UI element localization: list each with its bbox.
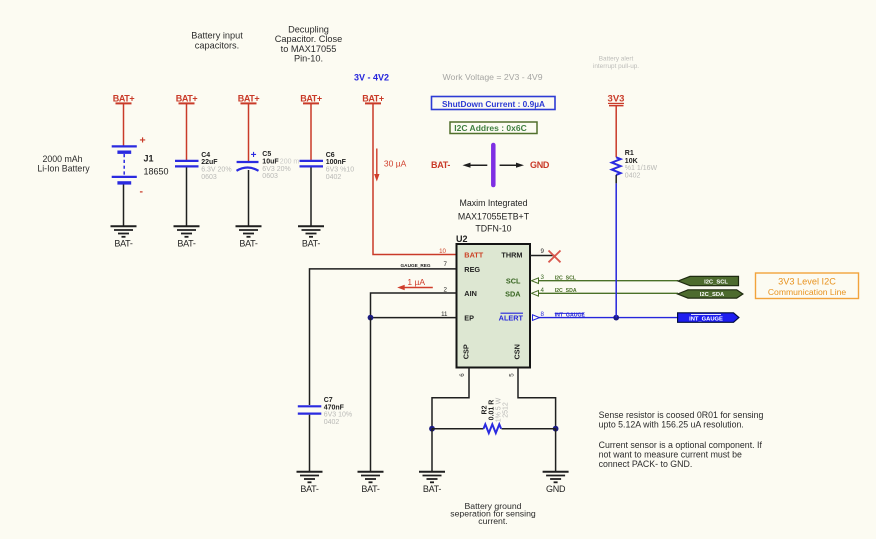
svg-text:CSP: CSP <box>462 344 471 359</box>
power flag BAT+ (battery column) <box>113 94 135 104</box>
svg-text:I2C_SDA: I2C_SDA <box>700 292 725 298</box>
pin direction arrow (SCL input) <box>532 278 539 284</box>
svg-text:Capacitor. Close: Capacitor. Close <box>275 34 342 44</box>
power flag BAT+ (C6 column) <box>300 94 322 104</box>
svg-text:Pin-10.: Pin-10. <box>294 54 323 64</box>
svg-text:BAT-: BAT- <box>431 160 450 170</box>
wire (left node to R2) <box>432 428 484 430</box>
wire (C7 to ground) <box>309 415 311 472</box>
wire (3V3 to R1) <box>615 106 617 158</box>
svg-text:R1: R1 <box>625 150 634 157</box>
svg-text:I2C_SCL: I2C_SCL <box>555 276 577 282</box>
svg-text:10K: 10K <box>625 158 638 165</box>
wire (left node to ground) <box>431 429 433 472</box>
note: Battery input capacitors <box>191 31 243 51</box>
svg-text:INT_GAUGE: INT_GAUGE <box>689 316 723 322</box>
wire (BAT+ to C6) <box>310 103 312 160</box>
svg-text:0603: 0603 <box>262 173 278 180</box>
svg-text:to MAX17055: to MAX17055 <box>281 44 337 54</box>
svg-text:%1 1/16W: %1 1/16W <box>625 165 658 172</box>
wire INT_GAUGE (ALERT pin to port) <box>539 317 678 319</box>
port flag I2C_SCL <box>678 276 739 285</box>
svg-text:BAT+: BAT+ <box>238 94 260 104</box>
svg-text:connect PACK- to GND.: connect PACK- to GND. <box>599 459 693 469</box>
svg-text:Decupling: Decupling <box>288 24 329 34</box>
callout: ShutDown Current box <box>432 97 556 110</box>
svg-text:6V3 %10: 6V3 %10 <box>326 167 355 174</box>
wire (AIN pin left and down) <box>371 293 457 318</box>
wire (R2 to right node) <box>502 428 556 430</box>
IC U2 MAX17055ETB+T title <box>458 198 530 233</box>
svg-text:Maxim Integrated: Maxim Integrated <box>460 198 528 208</box>
svg-text:9: 9 <box>541 248 545 255</box>
svg-text:BAT-: BAT- <box>423 484 442 494</box>
svg-text:Battery input: Battery input <box>191 31 243 41</box>
junction (R2 right node) <box>553 426 559 432</box>
power flag BAT+ (C4 column) <box>176 94 198 104</box>
svg-text:REG: REG <box>464 265 480 274</box>
svg-text:Work Voltage = 2V3 - 4V9: Work Voltage = 2V3 - 4V9 <box>443 72 543 82</box>
wire (BAT+ to C5) <box>248 103 250 161</box>
svg-text:EP: EP <box>464 314 474 323</box>
node BAT- (isolation left) <box>431 160 487 170</box>
svg-text:10: 10 <box>439 248 446 255</box>
capacitor C4 <box>175 152 232 181</box>
resistor R1 10K <box>612 150 658 180</box>
svg-text:Communication Line: Communication Line <box>768 287 847 297</box>
svg-text:SCL: SCL <box>506 277 521 286</box>
svg-text:-: - <box>140 186 144 198</box>
svg-text:0603: 0603 <box>201 174 217 181</box>
net label INT_GAUGE (active low) <box>555 313 586 319</box>
svg-text:BAT-: BAT- <box>300 484 319 494</box>
no-connect X (THRM) <box>549 251 561 263</box>
ground GND (sense right) <box>543 472 569 494</box>
svg-text:I2C_SDA: I2C_SDA <box>555 288 577 294</box>
svg-text:BAT-: BAT- <box>302 238 321 248</box>
wire (BAT+ rail to U2 BATT pin) <box>373 103 457 254</box>
svg-text:THRM: THRM <box>501 251 522 260</box>
wire (BAT+ to C4) <box>186 103 188 160</box>
capacitor C7 <box>298 397 352 426</box>
wire (C5 to ground) <box>248 170 250 226</box>
svg-text:+: + <box>140 135 146 147</box>
wire GAUGE_REG (REG pin to C7) <box>310 269 457 405</box>
pin direction arrow (SDA input) <box>532 291 539 297</box>
ground BAT- (battery column) <box>111 226 137 248</box>
svg-text:3V3 Level I2C: 3V3 Level I2C <box>778 276 836 286</box>
current annotation 30 uA <box>374 149 407 182</box>
svg-text:30 µA: 30 µA <box>384 159 407 169</box>
ground BAT- (C7 column) <box>297 472 323 494</box>
svg-text:2512: 2512 <box>503 402 510 418</box>
svg-text:I2C_SCL: I2C_SCL <box>704 279 728 285</box>
svg-text:BAT-: BAT- <box>177 238 196 248</box>
svg-text:+: + <box>251 150 257 161</box>
note: Current sensor optional <box>599 440 763 469</box>
note: Battery ground seperation <box>450 501 536 526</box>
wire (BAT+ to battery) <box>123 103 125 146</box>
note: Battery alert interrupt pull-up <box>593 55 639 69</box>
note: Sense resistor <box>599 410 764 429</box>
svg-text:BAT+: BAT+ <box>300 94 322 104</box>
svg-text:GND: GND <box>530 160 550 170</box>
power flag BAT+ (C5 column) <box>238 94 260 104</box>
wire (EP node to ground) <box>370 318 372 472</box>
svg-text:I2C Addres : 0x6C: I2C Addres : 0x6C <box>454 123 526 133</box>
svg-text:C7: C7 <box>324 397 333 404</box>
svg-text:2000 mAh: 2000 mAh <box>42 154 82 164</box>
svg-text:0402: 0402 <box>625 173 641 180</box>
svg-text:CSN: CSN <box>513 344 522 359</box>
current annotation 1 uA <box>397 277 433 290</box>
svg-text:5: 5 <box>509 373 516 377</box>
svg-text:1 µA: 1 µA <box>407 277 425 287</box>
svg-text:BAT+: BAT+ <box>113 94 135 104</box>
wire (EP pin left) <box>371 317 457 319</box>
wire (battery to ground) <box>123 185 125 227</box>
svg-text:0402: 0402 <box>324 419 340 426</box>
wire (C6 to ground) <box>310 168 312 227</box>
ground BAT- (C4 column) <box>174 226 200 248</box>
svg-text:Battery alert: Battery alert <box>599 55 634 62</box>
wire I2C_SDA (SDA pin to port) <box>538 292 678 294</box>
svg-text:6: 6 <box>459 373 466 377</box>
wire (THRM stub) <box>530 255 555 257</box>
svg-text:6V3 20%: 6V3 20% <box>262 166 290 173</box>
resistor R2 0.01R (sense) <box>481 397 509 433</box>
svg-text:BAT-: BAT- <box>361 484 380 494</box>
svg-text:current.: current. <box>478 516 507 526</box>
svg-text:10uF: 10uF <box>262 159 279 166</box>
svg-text:C5: C5 <box>262 151 271 158</box>
svg-text:100nF: 100nF <box>326 159 347 166</box>
IC U2 body <box>456 234 530 368</box>
wire (R1 to INT_GAUGE node) <box>615 183 617 317</box>
svg-text:ShutDown Current : 0.9µA: ShutDown Current : 0.9µA <box>442 99 545 109</box>
ground BAT- (C5 column) <box>236 226 262 248</box>
ground BAT- (C6 column) <box>298 226 324 248</box>
svg-text:0402: 0402 <box>326 174 342 181</box>
svg-text:3V - 4V2: 3V - 4V2 <box>354 73 389 83</box>
svg-text:GND: GND <box>546 484 566 494</box>
svg-text:6V3 10%: 6V3 10% <box>324 412 352 419</box>
svg-text:R2: R2 <box>481 405 488 414</box>
svg-text:BAT+: BAT+ <box>362 94 384 104</box>
node GND (isolation right) <box>500 160 550 170</box>
wire (CSN pin to sense node) <box>518 368 556 429</box>
svg-text:C4: C4 <box>201 152 210 159</box>
note: 2000 mAh Li-Ion Battery <box>37 154 90 174</box>
power flag 3V3 <box>608 94 625 106</box>
ground BAT- (EP column) <box>358 472 384 494</box>
port flag INT_GAUGE <box>678 313 739 323</box>
junction (R2 left node) <box>429 426 435 432</box>
port flag I2C_SDA <box>678 290 743 298</box>
pin direction arrow (ALERT output) <box>533 315 540 321</box>
svg-text:7: 7 <box>444 261 448 268</box>
svg-text:SDA: SDA <box>505 289 521 298</box>
svg-text:J1: J1 <box>144 154 154 164</box>
svg-text:GAUGE_REG: GAUGE_REG <box>401 263 431 268</box>
svg-text:22uF: 22uF <box>201 159 218 166</box>
svg-text:Li-Ion Battery: Li-Ion Battery <box>37 163 90 173</box>
isolation bar (purple) <box>491 145 496 185</box>
svg-text:upto 5.12A with 156.25 uA reso: upto 5.12A with 156.25 uA resolution. <box>599 419 744 429</box>
svg-text:200 m: 200 m <box>280 159 300 166</box>
svg-text:ALERT: ALERT <box>499 314 524 323</box>
svg-text:BATT: BATT <box>464 251 483 260</box>
wire (C4 to ground) <box>186 168 188 227</box>
wire (CSP pin to sense node) <box>432 368 469 429</box>
capacitor C5 (polarized) <box>237 150 300 180</box>
junction (R1 / INT_GAUGE node) <box>613 315 619 321</box>
callout: I2C Address box <box>450 122 537 134</box>
svg-text:AIN: AIN <box>464 289 477 298</box>
power flag BAT+ (BATT rail) <box>362 94 384 104</box>
svg-text:BAT-: BAT- <box>239 238 258 248</box>
svg-text:6.3V 20%: 6.3V 20% <box>201 167 231 174</box>
battery J1 18650 <box>112 135 169 198</box>
wire (right node to ground) <box>555 429 557 472</box>
note: Decupling Capacitor <box>275 24 342 63</box>
svg-text:capacitors.: capacitors. <box>195 41 239 51</box>
svg-text:18650: 18650 <box>144 166 169 176</box>
svg-text:0.01 R: 0.01 R <box>488 400 495 421</box>
capacitor C6 <box>300 152 355 181</box>
svg-text:BAT-: BAT- <box>114 238 133 248</box>
svg-text:TDFN-10: TDFN-10 <box>475 224 511 234</box>
svg-text:U2: U2 <box>456 234 468 244</box>
svg-text:MAX17055ETB+T: MAX17055ETB+T <box>458 212 530 222</box>
ground BAT- (sense left) <box>419 472 445 494</box>
svg-text:1% 5 W: 1% 5 W <box>496 397 503 422</box>
wire I2C_SCL (SCL pin to port) <box>538 280 678 282</box>
svg-text:C6: C6 <box>326 152 335 159</box>
wire (R1 bottom stub) <box>615 175 617 184</box>
svg-text:BAT+: BAT+ <box>176 94 198 104</box>
svg-text:interrupt pull-up.: interrupt pull-up. <box>593 63 639 70</box>
svg-text:470nF: 470nF <box>324 404 345 411</box>
junction (AIN/EP node) <box>368 315 374 321</box>
callout: 3V3 Level I2C Communication Line <box>756 273 859 299</box>
U2 pin name ALERT (active low) <box>499 313 524 322</box>
